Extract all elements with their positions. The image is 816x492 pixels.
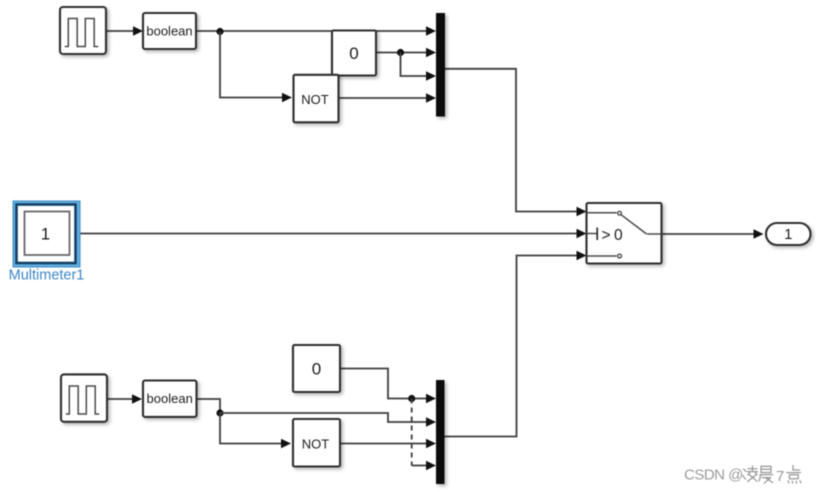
svg-text:NOT: NOT (302, 437, 330, 452)
svg-text:0: 0 (312, 360, 321, 379)
svg-text:7: 7 (776, 468, 784, 485)
svg-text:boolean: boolean (147, 391, 193, 406)
svg-text:> 0: > 0 (602, 227, 624, 244)
svg-text:CSDN @: CSDN @ (684, 467, 743, 484)
svg-text:1: 1 (784, 226, 792, 243)
svg-text:0: 0 (349, 44, 358, 63)
svg-text:1: 1 (41, 224, 50, 243)
svg-text:Multimeter1: Multimeter1 (9, 268, 85, 284)
svg-text:boolean: boolean (146, 24, 192, 39)
svg-text:NOT: NOT (301, 92, 329, 107)
